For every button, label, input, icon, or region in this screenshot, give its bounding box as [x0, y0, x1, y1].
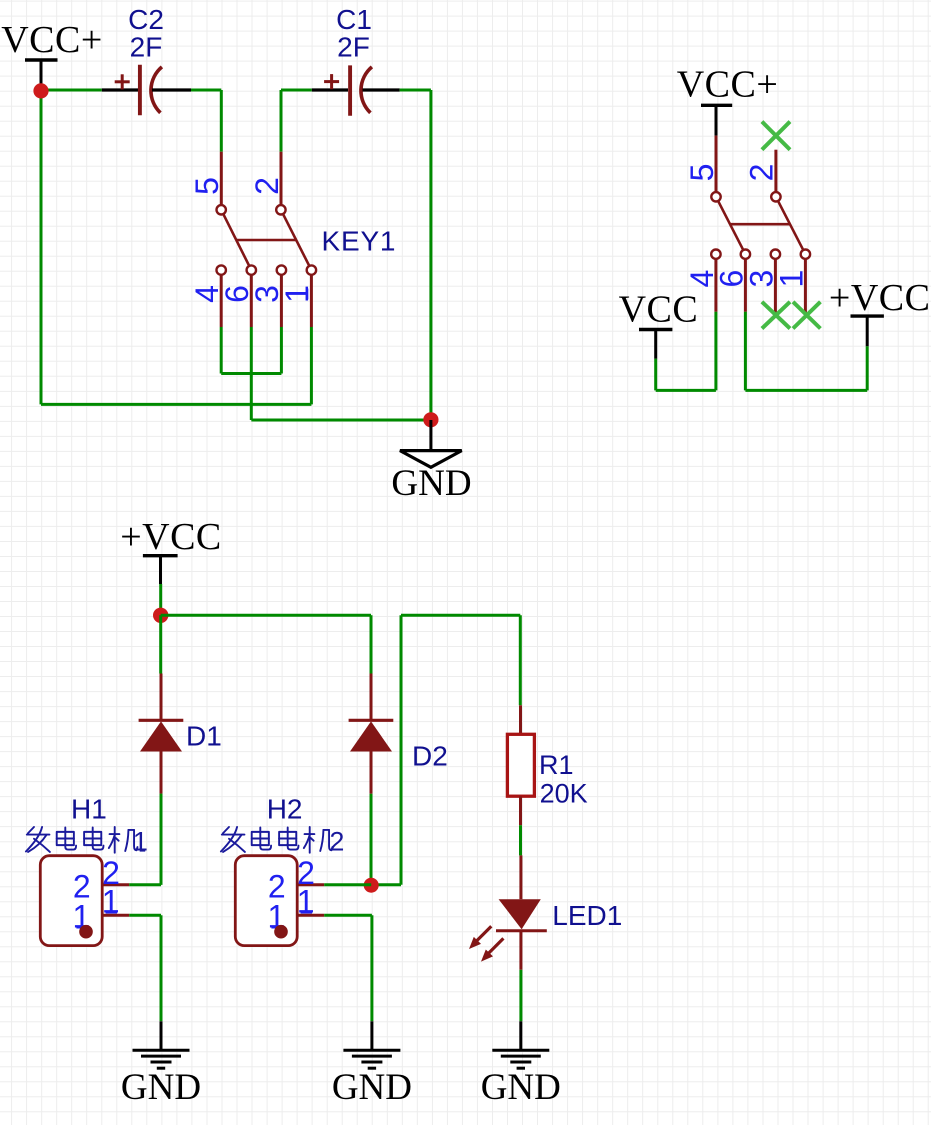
svg-text:D2: D2 — [412, 741, 448, 772]
svg-text:R1: R1 — [539, 750, 574, 780]
svg-text:5: 5 — [189, 177, 225, 195]
svg-text:+VCC: +VCC — [120, 516, 222, 558]
svg-text:GND: GND — [332, 1067, 412, 1108]
svg-text:2: 2 — [744, 164, 780, 182]
svg-text:20K: 20K — [540, 778, 588, 808]
svg-text:C1: C1 — [336, 4, 372, 35]
svg-text:2: 2 — [329, 827, 344, 857]
svg-text:1: 1 — [279, 285, 315, 303]
svg-text:GND: GND — [481, 1067, 561, 1108]
svg-text:+VCC: +VCC — [829, 277, 931, 319]
svg-text:1: 1 — [102, 883, 120, 919]
svg-text:1: 1 — [773, 270, 809, 288]
svg-text:D1: D1 — [186, 721, 222, 752]
svg-text:KEY1: KEY1 — [322, 226, 397, 257]
svg-text:GND: GND — [121, 1067, 201, 1108]
svg-text:VCC: VCC — [619, 289, 699, 331]
svg-text:2F: 2F — [337, 32, 370, 63]
svg-text:1: 1 — [297, 883, 315, 919]
svg-text:2F: 2F — [130, 32, 163, 63]
svg-text:1: 1 — [133, 827, 148, 857]
svg-text:5: 5 — [684, 164, 720, 182]
svg-text:GND: GND — [391, 463, 471, 504]
svg-text:2: 2 — [249, 177, 285, 195]
svg-text:LED1: LED1 — [552, 900, 622, 931]
svg-text:C2: C2 — [128, 4, 164, 35]
svg-text:H2: H2 — [267, 793, 303, 824]
svg-text:H1: H1 — [71, 793, 107, 824]
svg-text:VCC+: VCC+ — [677, 64, 779, 106]
svg-text:VCC+: VCC+ — [1, 19, 103, 61]
